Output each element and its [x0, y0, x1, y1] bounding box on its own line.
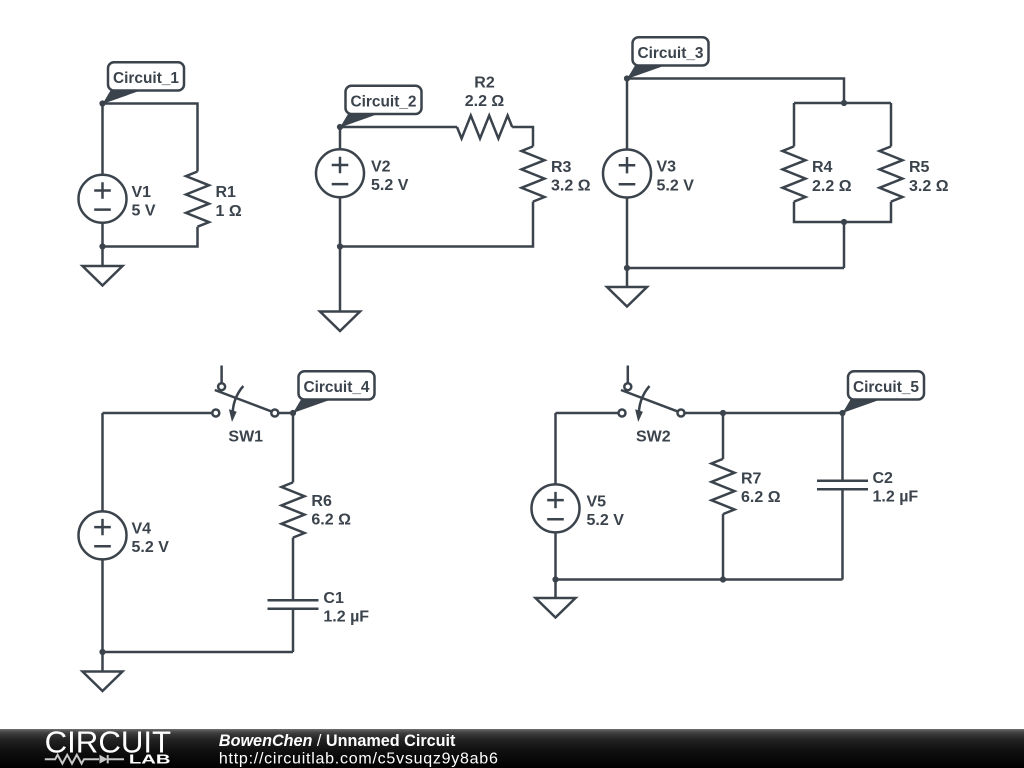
svg-text:5 V: 5 V [132, 203, 156, 220]
svg-text:2.2 Ω: 2.2 Ω [812, 178, 852, 195]
svg-text:Circuit_1: Circuit_1 [113, 70, 179, 87]
svg-text:R7: R7 [741, 471, 762, 488]
svg-text:5.2 V: 5.2 V [657, 177, 695, 194]
svg-text:V1: V1 [132, 184, 152, 201]
svg-text:6.2 Ω: 6.2 Ω [741, 489, 781, 506]
svg-text:V2: V2 [371, 159, 391, 176]
svg-text:SW2: SW2 [636, 429, 671, 446]
svg-text:C2: C2 [873, 470, 894, 487]
svg-text:5.2 V: 5.2 V [371, 177, 409, 194]
svg-text:Circuit_5: Circuit_5 [853, 379, 919, 396]
svg-text:Circuit_4: Circuit_4 [304, 379, 370, 396]
svg-text:R6: R6 [311, 493, 332, 510]
svg-text:5.2 V: 5.2 V [132, 539, 170, 556]
svg-text:1.2 µF: 1.2 µF [323, 608, 369, 625]
svg-text:BowenChen / Unnamed Circuit: BowenChen / Unnamed Circuit [219, 732, 456, 750]
svg-text:V3: V3 [657, 159, 677, 176]
svg-text:R1: R1 [216, 184, 237, 201]
svg-text:3.2 Ω: 3.2 Ω [551, 178, 591, 195]
svg-text:2.2 Ω: 2.2 Ω [465, 93, 505, 110]
svg-text:V5: V5 [587, 494, 607, 511]
svg-text:V4: V4 [132, 521, 152, 538]
svg-text:3.2 Ω: 3.2 Ω [909, 178, 949, 195]
svg-text:R5: R5 [909, 159, 930, 176]
svg-text:http://circuitlab.com/c5vsuqz9: http://circuitlab.com/c5vsuqz9y8ab6 [219, 751, 499, 768]
svg-text:6.2 Ω: 6.2 Ω [311, 511, 351, 528]
svg-text:1 Ω: 1 Ω [216, 203, 242, 220]
svg-text:Circuit_3: Circuit_3 [638, 45, 704, 62]
svg-text:Circuit_2: Circuit_2 [351, 94, 417, 111]
svg-text:1.2 µF: 1.2 µF [873, 489, 919, 506]
svg-text:LAB: LAB [129, 752, 171, 767]
svg-text:SW1: SW1 [228, 429, 263, 446]
svg-text:C1: C1 [323, 590, 344, 607]
svg-text:R2: R2 [474, 75, 495, 92]
svg-text:5.2 V: 5.2 V [587, 512, 625, 529]
svg-text:R3: R3 [551, 159, 572, 176]
svg-text:R4: R4 [812, 159, 833, 176]
